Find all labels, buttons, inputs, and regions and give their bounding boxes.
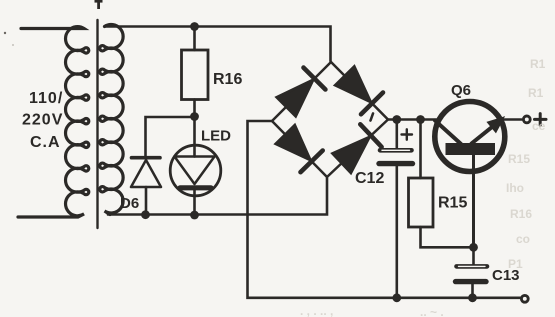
svg-text:LED: LED (201, 128, 231, 145)
node: D6 anode on bottom secondary wire (141, 210, 150, 219)
stray tick mark inside bridge (371, 114, 374, 121)
node: R15 top on + rail (416, 115, 425, 124)
bridge diode top-left (anode at left corner) (277, 68, 326, 117)
wire: R15 bottom to base line (421, 227, 474, 247)
- output terminal (521, 295, 528, 302)
svg-text:C12: C12 (355, 170, 384, 187)
resistor R15 lead top (419, 120, 422, 179)
transformer T secondary winding (100, 25, 123, 215)
svg-text:R16: R16 (510, 207, 532, 221)
faint bleed-through ghost text on right margin (300, 57, 546, 317)
C12 polarity + (402, 129, 413, 139)
junction: base node (469, 243, 478, 252)
wire: bridge + output to transistor (388, 118, 436, 121)
capacitor C13 (456, 247, 488, 297)
svg-text:C.A: C.A (30, 134, 61, 151)
+ output terminal (523, 116, 530, 123)
svg-text:R16: R16 (213, 71, 242, 88)
svg-text:110/: 110/ (29, 90, 63, 107)
svg-text:co: co (516, 232, 530, 246)
wire: R16 lead bottom (193, 100, 196, 117)
wire: bridge - output to bottom rail (248, 121, 522, 298)
svg-text:Iho: Iho (506, 181, 524, 195)
resistor R16 (182, 50, 209, 100)
svg-text:R15: R15 (438, 195, 467, 212)
svg-text:R15: R15 (508, 152, 530, 166)
node: C13 bottom on - rail (468, 293, 477, 302)
svg-text:R1: R1 (528, 86, 544, 100)
svg-text:R1: R1 (530, 57, 546, 71)
wire: secondary top rail to bridge (105, 27, 331, 62)
bridge diode top-right (cathode at right corner) (335, 66, 383, 114)
capacitor C12 lead top (395, 120, 398, 148)
node: R16 bottom / LED / D6 branch (190, 112, 199, 121)
wire: node to D6 branch (146, 117, 195, 156)
stray specks top-left (4, 32, 6, 34)
transformer T primary winding (18, 27, 89, 217)
svg-text:. , . .. ,: . , . .. , (300, 304, 333, 317)
diode D6 (131, 158, 161, 215)
bridge diode bottom-left (anode at left corner) (276, 125, 323, 172)
LED lead top (193, 117, 196, 157)
label T (cropped at top) (95, 0, 103, 9)
LED (170, 145, 221, 215)
node: C12 top on + rail (392, 115, 401, 124)
wire: emitter to + output (505, 118, 522, 121)
svg-text:Q6: Q6 (451, 82, 471, 99)
transformer T core (96, 20, 98, 228)
+ sign at output (535, 114, 547, 126)
node: C12 bottom on - rail (392, 293, 401, 302)
svg-text:D6: D6 (120, 195, 139, 212)
svg-text:.. ~ .: .. ~ . (420, 305, 444, 317)
node: LED cathode on bottom secondary wire (190, 211, 199, 220)
wire: R16 lead top (193, 27, 196, 51)
wire: secondary bottom to bridge bottom corner (108, 178, 327, 215)
svg-text:ce: ce (532, 119, 546, 133)
bridge rectifier diamond edges (272, 62, 388, 177)
svg-text:P1: P1 (508, 257, 523, 271)
bridge diode bottom-right (cathode at right corner) (332, 124, 381, 173)
svg-text:220V: 220V (22, 112, 63, 129)
capacitor C12 (379, 150, 413, 297)
transistor Q6 (435, 102, 505, 248)
resistor R15 (409, 178, 434, 227)
node: R16 top on secondary rail (190, 22, 199, 31)
